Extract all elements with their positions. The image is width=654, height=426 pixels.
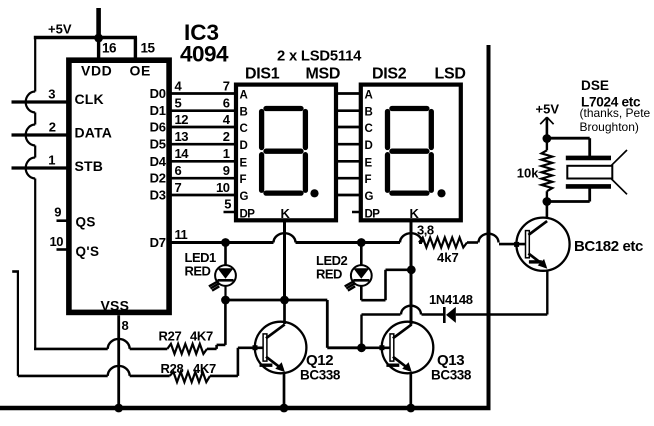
svg-text:DP: DP	[365, 209, 381, 221]
label 4K7 (R27)	[190, 329, 213, 344]
wire R28 row (hop over VSS line)	[18, 366, 170, 376]
label DIS2 segment A	[365, 90, 373, 102]
label pin 8	[122, 318, 129, 333]
svg-text:RED: RED	[316, 267, 342, 282]
label D1	[150, 103, 166, 118]
node LED2 cathode to K2 junction	[407, 265, 416, 274]
svg-text:E: E	[365, 157, 373, 169]
svg-text:D6: D6	[150, 120, 166, 135]
svg-text:DATA: DATA	[75, 124, 113, 140]
label DIS1 K (cathode)	[281, 206, 291, 221]
wire segment line G (IC pin 7 to DIS1 pin 10)	[169, 194, 236, 197]
display DIS2 body	[361, 85, 461, 221]
label OE	[130, 63, 151, 79]
svg-text:5: 5	[175, 96, 182, 111]
label +5V (right)	[536, 102, 560, 117]
wire segment line C (IC pin 12 to DIS1 pin 4)	[169, 126, 236, 129]
wire Q12 collector	[283, 300, 286, 324]
svg-text:1N4148: 1N4148	[429, 292, 473, 307]
wire segment line C between displays	[336, 126, 361, 129]
label DIS1 segment A	[240, 90, 248, 102]
svg-text:RED: RED	[185, 264, 211, 279]
label DIS1 segment B	[240, 107, 248, 119]
svg-text:6: 6	[175, 163, 182, 178]
label D0	[150, 86, 166, 101]
node Q12 emitter ground junction	[280, 404, 289, 413]
svg-text:G: G	[240, 191, 249, 203]
wire 4k7 to BC182 base (hop over vertical rail)	[467, 234, 526, 244]
label pin 6	[175, 163, 182, 178]
label DIS2 DP	[365, 209, 381, 221]
wire LED1 anode	[224, 243, 227, 266]
label BC338 (Q12)	[300, 368, 341, 383]
label DIS1 segment G	[240, 191, 249, 203]
transistor Q13	[379, 322, 433, 374]
svg-text:D2: D2	[150, 171, 166, 186]
label pin 11	[175, 227, 188, 242]
wire R27 row (hop over VSS line)	[34, 339, 167, 349]
label L7024 etc	[581, 95, 641, 110]
label pin 10	[50, 234, 64, 249]
label DIS1 segment D	[240, 140, 248, 152]
wire LED2 anode	[360, 243, 363, 266]
svg-text:Q'S: Q'S	[76, 244, 100, 259]
label pin 6	[223, 96, 230, 111]
svg-text:G: G	[365, 191, 374, 203]
wire LED2 cathode to K2 line	[361, 270, 411, 300]
node VSS ground junction	[114, 404, 123, 413]
label DIS1 segment F	[240, 174, 247, 186]
svg-text:OE: OE	[130, 63, 151, 79]
svg-text:Broughton): Broughton)	[580, 120, 639, 134]
svg-text:13: 13	[175, 129, 189, 144]
svg-text:CLK: CLK	[75, 91, 104, 107]
svg-text:F: F	[240, 174, 247, 186]
svg-text:2: 2	[49, 120, 56, 135]
svg-text:1: 1	[223, 146, 230, 161]
label pin 10	[216, 180, 230, 195]
wire DIS1 K cathode line	[283, 221, 286, 301]
diode D? 1N4148	[444, 307, 456, 323]
label pin 5 (DP)	[224, 197, 231, 212]
power symbol +5V arrow	[540, 117, 553, 138]
svg-text:D4: D4	[150, 154, 167, 169]
label pin 7	[223, 78, 230, 93]
svg-text:DP: DP	[240, 209, 256, 221]
display DIS2 digit 8	[388, 109, 432, 194]
svg-text:DIS2: DIS2	[372, 66, 407, 83]
wire +5V feed from top	[96, 8, 101, 38]
wire Q13 base riser to diode row	[360, 315, 362, 348]
svg-text:D0: D0	[150, 86, 166, 101]
wire CLK input	[12, 100, 67, 103]
wire to Q13 base	[327, 300, 361, 348]
label 3,8 (DIS2 cathode pins)	[417, 223, 434, 238]
svg-text:MSD: MSD	[306, 66, 341, 83]
label D6	[150, 120, 166, 135]
label pin 7	[175, 180, 182, 195]
resistor 4k7 (base feed BC182)	[419, 238, 467, 248]
svg-text:16: 16	[102, 41, 117, 56]
label 4k7	[437, 250, 459, 265]
wire DIS2 K cathode line	[410, 221, 413, 325]
svg-text:BC338: BC338	[300, 368, 341, 383]
label D5	[150, 137, 166, 152]
wire vertical rail (right of DIS2, to ground bus)	[487, 45, 491, 408]
svg-text:9: 9	[54, 205, 61, 220]
label 10k	[517, 166, 539, 181]
wire R27 to LED1 cathode node	[207, 300, 225, 349]
svg-text:VDD: VDD	[81, 63, 112, 79]
node 10k top junction	[543, 134, 552, 143]
label pin 1	[48, 153, 55, 168]
wire D7 output bus	[169, 233, 422, 242]
svg-text:2 x LSD5114: 2 x LSD5114	[277, 49, 362, 65]
svg-text:11: 11	[175, 227, 188, 242]
label Q13	[437, 352, 464, 369]
svg-text:BC338: BC338	[431, 368, 472, 383]
label DIS2 segment C	[365, 123, 373, 135]
svg-text:4k7: 4k7	[437, 250, 459, 265]
svg-text:D1: D1	[150, 103, 166, 118]
label pin 3	[48, 87, 55, 102]
svg-text:6: 6	[223, 96, 230, 111]
svg-text:(thanks, Pete: (thanks, Pete	[580, 106, 651, 120]
svg-text:BC182 etc: BC182 etc	[574, 238, 643, 255]
display DIS1 digit 8	[262, 109, 306, 194]
label IC3	[184, 20, 219, 45]
node Q13 emitter ground junction	[406, 404, 415, 413]
label DATA	[75, 124, 113, 140]
svg-text:+5V: +5V	[536, 102, 560, 117]
wire DP stub DIS1	[224, 211, 237, 214]
label pin 14	[175, 146, 190, 161]
wire Q12 emitter to ground	[283, 373, 286, 409]
label MSD	[306, 66, 341, 83]
node LED2 anode junction	[357, 238, 366, 247]
label RED (LED2)	[316, 267, 342, 282]
node 10k bottom junction	[543, 197, 552, 206]
label 2 x LSD5114	[277, 49, 362, 65]
label pin 16	[102, 41, 117, 56]
svg-text:4094: 4094	[180, 42, 229, 67]
label DIS2 segment E	[365, 157, 373, 169]
wire segment line E between displays	[336, 160, 361, 163]
label BC182 etc	[574, 238, 643, 255]
label R28	[161, 361, 184, 376]
svg-text:10k: 10k	[517, 166, 539, 181]
wire LED1 cathode	[224, 286, 226, 300]
label R27	[159, 329, 182, 344]
wire +5V drop to R27 (with hops over CLK/DATA/STB)	[26, 38, 35, 349]
svg-text:D3: D3	[150, 188, 166, 203]
label D2	[150, 171, 166, 186]
svg-text:10: 10	[50, 234, 64, 249]
wire diode row (hop over K2)	[362, 306, 444, 315]
label DIS2 segment D	[365, 140, 373, 152]
label 4K7 (R28)	[193, 361, 216, 376]
svg-text:7: 7	[175, 180, 182, 195]
svg-text:B: B	[240, 107, 248, 119]
svg-text:3: 3	[48, 87, 55, 102]
label VSS	[101, 298, 130, 314]
label pin 4	[223, 112, 231, 127]
LED LED1	[209, 265, 236, 291]
wire segment line D (IC pin 13 to DIS1 pin 2)	[169, 143, 236, 146]
node +5V rail junction	[94, 34, 103, 43]
wire Q13 base	[362, 346, 391, 349]
svg-text:E: E	[240, 157, 248, 169]
wire segment line F (IC pin 6 to DIS1 pin 9)	[169, 177, 236, 180]
wire DP stub DIS2	[352, 211, 361, 214]
wire Q'S stub pin 10	[57, 248, 67, 251]
label pin 9	[54, 205, 61, 220]
label DIS1 DP	[240, 209, 256, 221]
display DIS2 decimal point	[437, 189, 445, 197]
svg-text:DIS1: DIS1	[245, 66, 280, 83]
wire BC182 emitter down to diode row	[546, 271, 548, 315]
wire segment line A (IC pin 4 to DIS1 pin 7)	[169, 92, 236, 95]
wire diode to BC182 emitter	[456, 313, 548, 315]
display DIS1 body	[236, 85, 336, 221]
label pin 2	[223, 129, 230, 144]
label 1N4148	[429, 292, 473, 307]
wire segment line G between displays	[336, 194, 361, 197]
svg-text:7: 7	[223, 78, 230, 93]
resistor R27	[167, 344, 207, 354]
svg-text:A: A	[365, 90, 373, 102]
svg-text:12: 12	[175, 112, 189, 127]
LED LED2	[345, 265, 372, 291]
svg-text:K: K	[281, 206, 291, 221]
wire segment line E (IC pin 14 to DIS1 pin 1)	[169, 160, 236, 163]
wire segment line D between displays	[336, 143, 361, 146]
svg-text:QS: QS	[76, 215, 96, 230]
svg-text:B: B	[365, 107, 373, 119]
svg-text:9: 9	[223, 163, 230, 178]
label CLK	[75, 91, 104, 107]
resistor 10k	[542, 139, 553, 202]
label STB	[75, 158, 104, 174]
label DSE	[581, 78, 609, 93]
wire segment line B between displays	[336, 109, 361, 112]
wire far-left stub	[12, 270, 19, 273]
svg-text:4K7: 4K7	[190, 329, 213, 344]
label LED2	[316, 253, 348, 268]
transistor Q? BC182	[514, 218, 570, 271]
label QS	[76, 215, 96, 230]
label DIS2 segment F	[365, 174, 372, 186]
svg-text:VSS: VSS	[101, 298, 130, 314]
label pin 9	[223, 163, 230, 178]
svg-text:F: F	[365, 174, 372, 186]
label VDD	[81, 63, 112, 79]
label Q'S	[76, 244, 100, 259]
wire DATA input	[12, 133, 67, 136]
wire segment line B (IC pin 5 to DIS1 pin 6)	[169, 109, 236, 112]
svg-text:14: 14	[175, 146, 190, 161]
svg-text:C: C	[365, 123, 373, 135]
wire QS stub pin 9	[57, 219, 67, 222]
label DIS2 K (cathode)	[410, 206, 420, 221]
label Broughton)	[580, 120, 639, 134]
svg-text:K: K	[410, 206, 420, 221]
label DIS1	[245, 66, 280, 83]
svg-text:3,8: 3,8	[417, 223, 434, 238]
svg-text:+5V: +5V	[48, 22, 72, 37]
node LED1 anode junction	[221, 238, 230, 247]
label LED1	[185, 250, 217, 265]
label pin 2	[49, 120, 56, 135]
wire R28 to Q12 base	[210, 348, 263, 376]
label (thanks, Pete	[580, 106, 651, 120]
svg-text:D: D	[365, 140, 373, 152]
wire segment line A between displays	[336, 92, 361, 95]
svg-text:5: 5	[224, 197, 231, 212]
label D7	[150, 235, 166, 250]
label pin 15	[141, 41, 156, 56]
label DIS2 segment B	[365, 107, 373, 119]
display DIS1 decimal point	[310, 189, 318, 197]
piezo buzzer DSE L7024	[547, 138, 627, 201]
wire pin 16 stub	[97, 38, 100, 58]
label DIS1 segment E	[240, 157, 248, 169]
node Q12 collector junction	[280, 296, 289, 305]
label DIS1 segment C	[240, 123, 248, 135]
svg-text:STB: STB	[75, 158, 104, 174]
IC U3 4094 body	[69, 60, 169, 312]
label D4	[150, 154, 167, 169]
label Q12	[306, 352, 333, 369]
svg-text:10: 10	[216, 180, 230, 195]
wire LED1 cathode / Q12 collector row	[226, 299, 328, 302]
svg-text:8: 8	[122, 318, 129, 333]
svg-text:4K7: 4K7	[193, 361, 216, 376]
svg-text:R28: R28	[161, 361, 184, 376]
node LED1 cathode junction	[221, 296, 230, 305]
node Q13 base junction	[357, 343, 366, 352]
svg-text:R27: R27	[159, 329, 182, 344]
wire pin 15 stub	[134, 38, 137, 59]
label RED (LED1)	[185, 264, 211, 279]
wire STB input	[12, 166, 67, 169]
svg-text:A: A	[240, 90, 248, 102]
label D3	[150, 188, 166, 203]
svg-text:15: 15	[141, 41, 156, 56]
svg-text:DSE: DSE	[581, 78, 609, 93]
wire BC182 collector	[546, 202, 549, 219]
wire ground bus	[0, 406, 491, 411]
transistor Q12	[253, 322, 307, 374]
label pin 12	[175, 112, 189, 127]
label +5V (top left)	[48, 22, 72, 37]
label pin 13	[175, 129, 189, 144]
svg-text:Q12: Q12	[306, 352, 333, 369]
label BC338 (Q13)	[431, 368, 472, 383]
svg-text:C: C	[240, 123, 248, 135]
svg-text:2: 2	[223, 129, 230, 144]
wire segment line F between displays	[336, 177, 361, 180]
label pin 1	[223, 146, 230, 161]
svg-text:Q13: Q13	[437, 352, 464, 369]
svg-text:1: 1	[48, 153, 55, 168]
label DIS2 segment G	[365, 191, 374, 203]
svg-text:D: D	[240, 140, 248, 152]
wire VSS pin 8 to ground	[117, 315, 120, 408]
label pin 5	[175, 96, 182, 111]
wire left drop to R28	[17, 272, 19, 376]
wire +5V rail horizontal	[34, 36, 137, 39]
label DIS2	[372, 66, 407, 83]
label LSD	[435, 66, 466, 83]
wire Q13 emitter to ground	[409, 373, 412, 409]
resistor R28	[170, 372, 210, 382]
svg-text:D7: D7	[150, 235, 166, 250]
label pin 4	[175, 78, 183, 93]
svg-text:LSD: LSD	[435, 66, 466, 83]
label 4094	[180, 42, 229, 67]
svg-text:D5: D5	[150, 137, 166, 152]
